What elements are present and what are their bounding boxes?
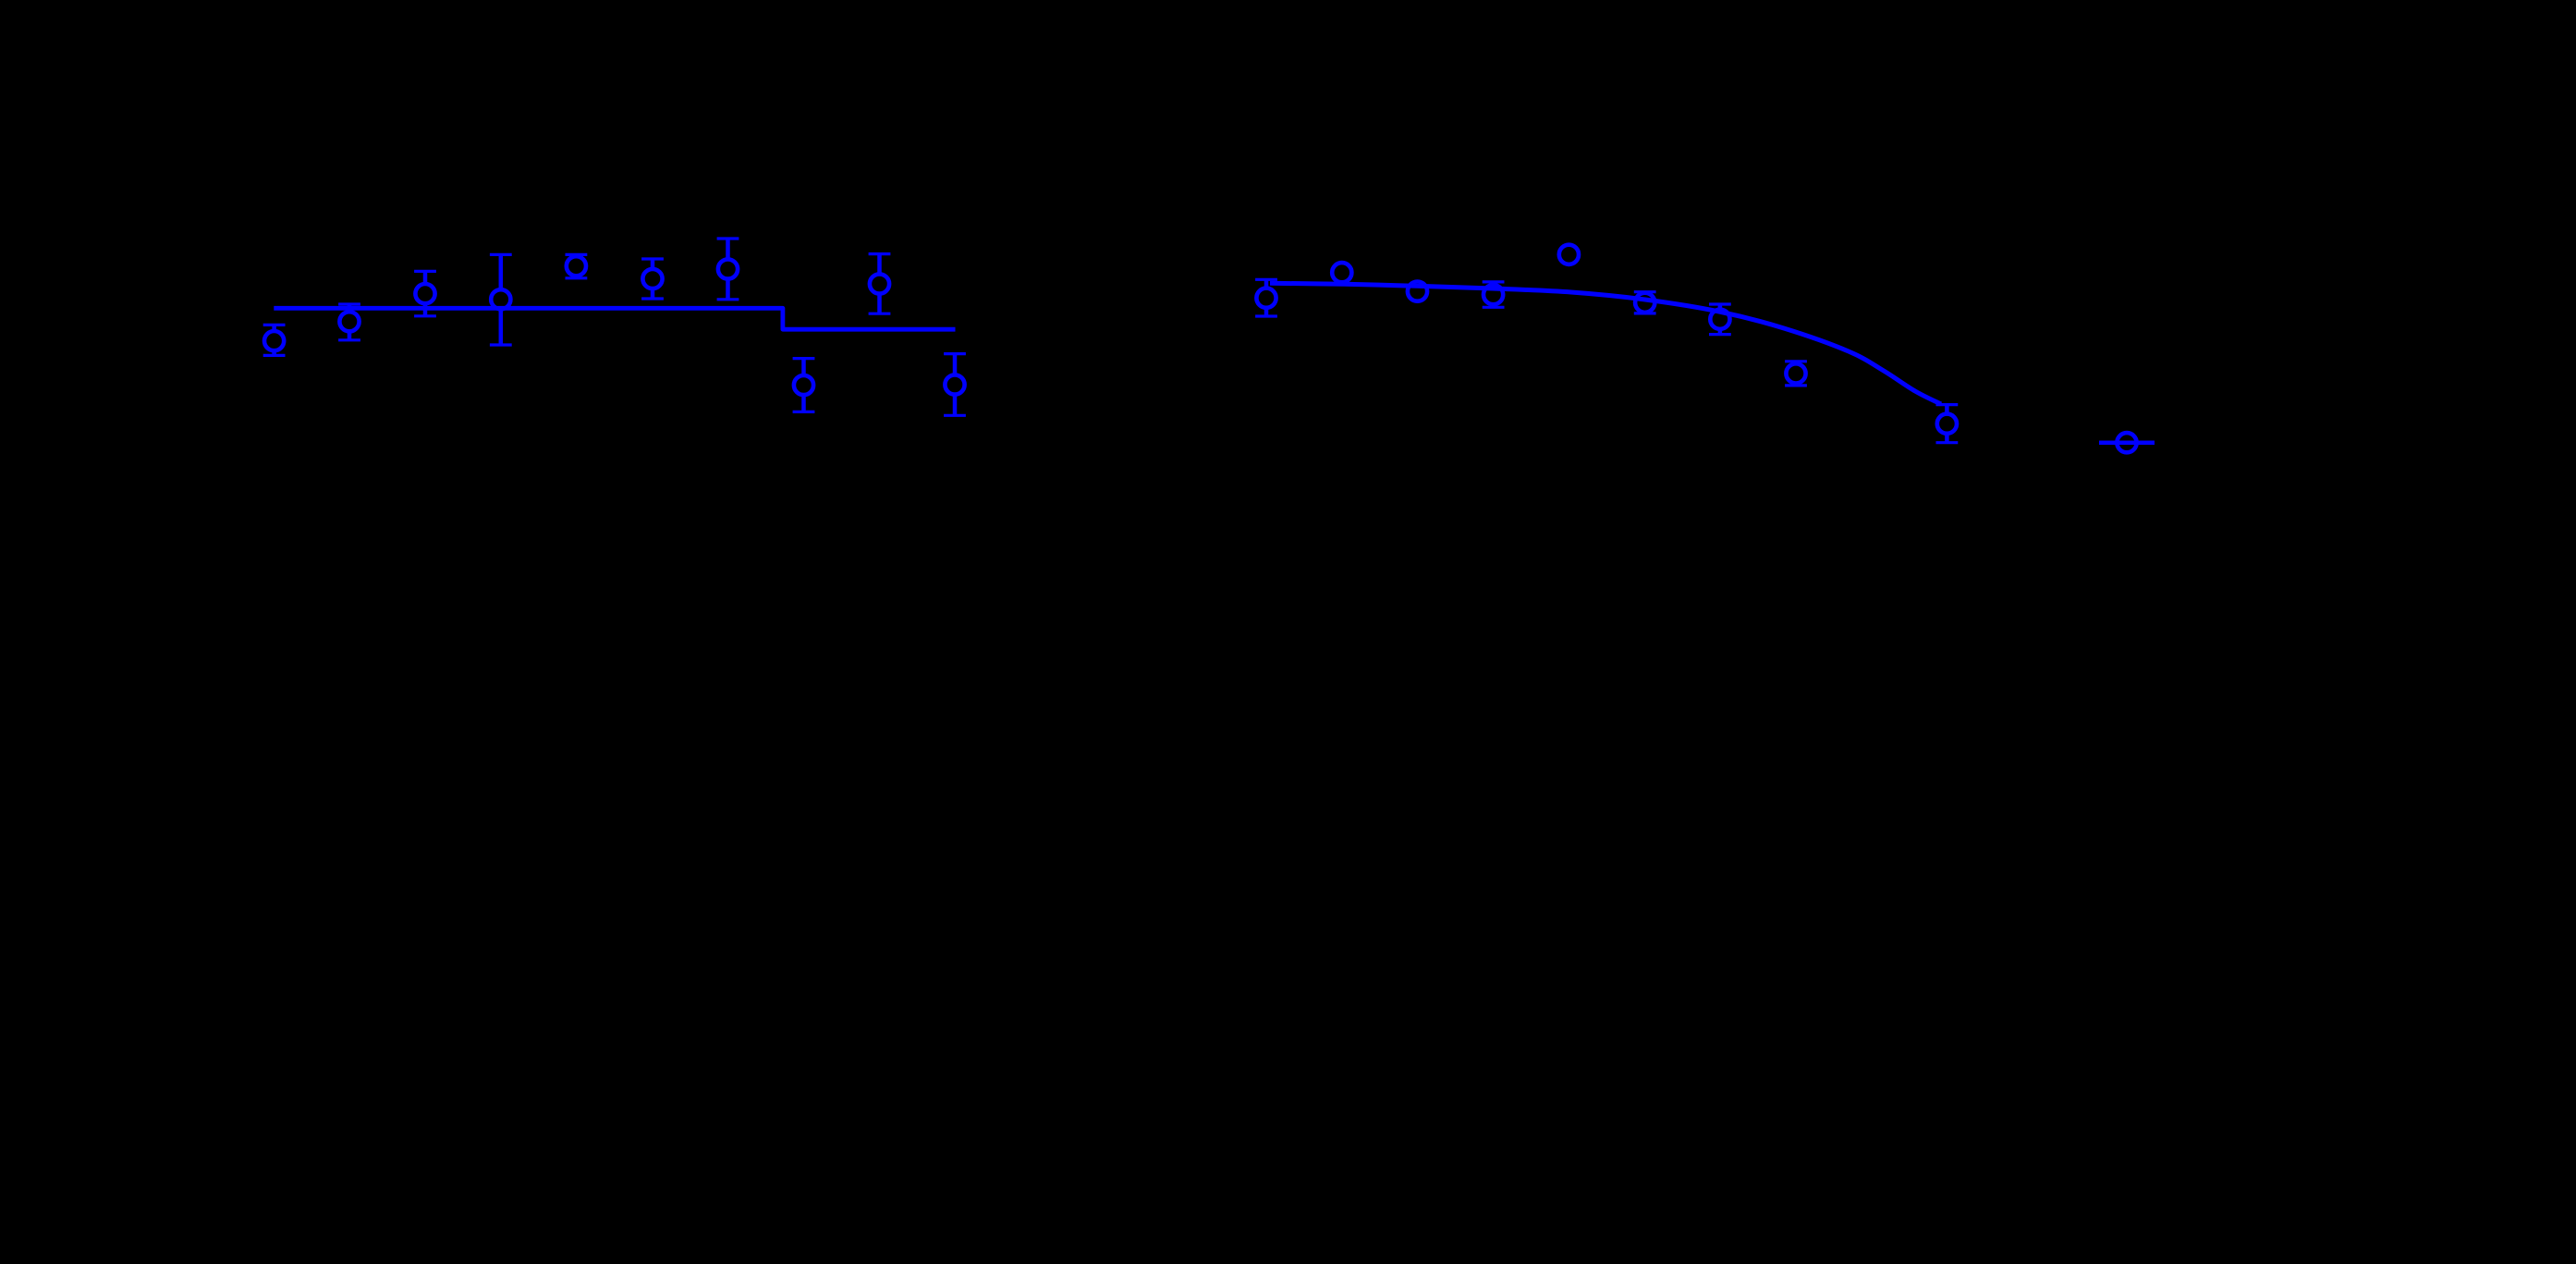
error bar Q4 (1483, 282, 1505, 307)
error bar Q9 (1936, 405, 1959, 443)
data point Q10 (2117, 433, 2136, 452)
data point P2 (339, 312, 359, 331)
error bar Q7 (1709, 304, 1731, 335)
fit model curve (right plot) (1270, 283, 1941, 404)
data point Q8 (1786, 363, 1805, 383)
data point Q7 (1710, 310, 1729, 329)
data point P7 (718, 259, 738, 278)
data point Q3 (1408, 282, 1427, 301)
data point P6 (642, 269, 662, 288)
error bar P4 (490, 254, 512, 345)
error bar Q1 (1255, 279, 1277, 316)
error bar P10 (944, 354, 966, 416)
data point Q9 (1937, 414, 1957, 434)
error bar P5 (566, 254, 588, 277)
step model line (left plot) (274, 308, 955, 329)
error bar Q6 (1634, 292, 1656, 313)
error bar P3 (414, 271, 436, 315)
data point Q4 (1483, 285, 1503, 304)
data point P9 (794, 375, 813, 395)
error bar P6 (641, 259, 664, 299)
data point P5 (567, 256, 586, 276)
data point P1 (264, 331, 284, 350)
data point P10 (945, 374, 964, 394)
data point Q1 (1256, 288, 1276, 308)
data point P4 (491, 289, 510, 309)
data point Q2 (1332, 263, 1351, 282)
error bar P2 (338, 304, 360, 340)
error bar P8 (869, 254, 891, 314)
data point Q6 (1635, 293, 1654, 313)
error bar Q8 (1785, 362, 1807, 386)
data point Q5 (1559, 245, 1579, 264)
data point P8 (870, 274, 889, 293)
data point P3 (415, 284, 434, 303)
flat model segment at last point (2099, 440, 2155, 445)
error bar P1 (263, 325, 286, 355)
error bar P7 (717, 239, 739, 300)
error bar P9 (793, 359, 815, 412)
